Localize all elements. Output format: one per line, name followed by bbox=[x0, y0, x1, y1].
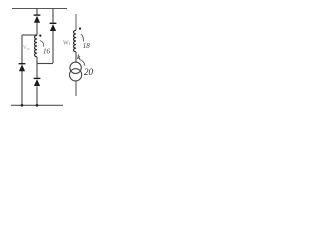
svg-text:Vw: Vw bbox=[23, 45, 30, 51]
svg-text:W1: W1 bbox=[63, 40, 71, 46]
svg-text:16: 16 bbox=[43, 48, 51, 56]
svg-text:20: 20 bbox=[84, 67, 94, 77]
svg-text:18: 18 bbox=[83, 42, 91, 50]
